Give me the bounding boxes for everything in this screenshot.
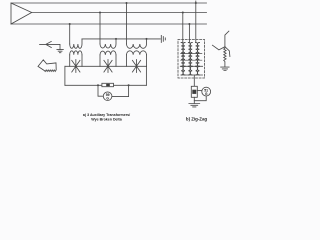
svg-text:a) 3 Auxiliary Transformers/: a) 3 Auxiliary Transformers/ bbox=[83, 113, 130, 117]
node tap T3 bbox=[125, 2, 127, 4]
zig-zag winding col4 upper bbox=[190, 43, 192, 67]
transformer T1 secondary bbox=[70, 51, 82, 55]
node tap Z3 bbox=[195, 2, 197, 4]
wire zig-zag neutral bar bbox=[181, 74, 203, 76]
transformer T3 secondary bbox=[127, 51, 147, 55]
wire relay 51G return bbox=[194, 96, 206, 101]
wire CT to relay 51G bbox=[197, 90, 202, 92]
node relay right bbox=[128, 84, 130, 86]
zig-zag vector symbol left branch bbox=[212, 45, 225, 50]
node X2 crossing bbox=[104, 60, 112, 73]
resistor R (loading) bbox=[102, 83, 114, 86]
zig-zag vector symbol top branch bbox=[225, 31, 229, 47]
fault block arrow (serrated) bbox=[38, 60, 56, 72]
bus envelope (source feeder) bbox=[11, 3, 32, 24]
relay 59G bbox=[103, 92, 112, 101]
zig-zag winding col6 lower bbox=[197, 66, 199, 75]
wire tap Z2 from phase C bbox=[188, 24, 190, 43]
wire tap Z1 from phase B bbox=[182, 13, 184, 43]
wire zig-zag jumper 2 bbox=[181, 59, 202, 61]
wire tap Z3 from phase A bbox=[195, 1, 197, 43]
transformer T2 secondary bbox=[100, 51, 116, 55]
wire neutral drop bbox=[193, 75, 195, 86]
zig-zag winding col4 lower bbox=[190, 66, 192, 75]
wire broken delta bbox=[65, 65, 146, 67]
wire T2 secondary stubs bbox=[100, 55, 116, 67]
coil neutral squiggle bbox=[224, 47, 226, 67]
wire broken delta right drop bbox=[145, 66, 147, 85]
wire relay loop top bbox=[65, 84, 146, 86]
wire CT to ground bbox=[193, 97, 195, 103]
ground (vector symbol) bbox=[221, 67, 229, 70]
node tap Z1 bbox=[182, 11, 184, 13]
transformer T1 primary bbox=[70, 39, 82, 48]
zig-zag transformer enclosure (dashed) bbox=[178, 40, 205, 79]
svg-text:b) Zig-Zag: b) Zig-Zag bbox=[186, 117, 208, 122]
wire tap T3 from phase A bbox=[126, 3, 128, 44]
wire tap T1 from phase C bbox=[69, 24, 71, 44]
node T2 primary to neutral bbox=[115, 38, 117, 40]
zig-zag vector symbol right branch bbox=[225, 47, 230, 57]
zig-zag winding col1 upper bbox=[181, 43, 183, 67]
zig-zag winding col2 lower bbox=[183, 66, 185, 75]
node tap T1 bbox=[69, 23, 71, 25]
node relay left bbox=[97, 84, 99, 86]
zig-zag winding col1 lower bbox=[181, 66, 183, 75]
wire relay 59G left bbox=[98, 85, 103, 96]
arrow fault-current to ground bbox=[40, 41, 60, 49]
wire broken delta left drop bbox=[64, 66, 66, 85]
wire T1 secondary stubs bbox=[70, 55, 82, 67]
wire primary neutral bbox=[82, 38, 160, 40]
wire relay 59G right bbox=[112, 85, 129, 96]
zig-zag winding col6 upper bbox=[197, 43, 199, 67]
transformer T2 primary bbox=[100, 39, 116, 48]
zig-zag winding col5 upper bbox=[196, 43, 198, 67]
bus phase C (bottom line) bbox=[11, 23, 207, 25]
node X3 crossing bbox=[132, 60, 140, 73]
bus phase B (middle line) bbox=[32, 12, 207, 14]
node tap Z2 bbox=[188, 23, 190, 25]
transformer T3 primary bbox=[127, 39, 147, 48]
ground (neutral, right-pointing) bbox=[161, 35, 165, 42]
zig-zag winding col3 lower bbox=[188, 66, 190, 75]
ground (small, under arrow) bbox=[57, 50, 63, 53]
node X1 crossing bbox=[72, 60, 80, 73]
zig-zag winding col2 upper bbox=[183, 43, 185, 67]
node tap T2 bbox=[99, 11, 101, 13]
wire tap T2 from phase B bbox=[99, 13, 101, 45]
relay 51G bbox=[202, 87, 211, 96]
wire zig-zag interconnect bbox=[180, 65, 202, 67]
node T3 primary to neutral bbox=[145, 38, 147, 40]
svg-text:Wye Broken Delta: Wye Broken Delta bbox=[91, 117, 122, 121]
ground (zig-zag neutral) bbox=[189, 104, 200, 107]
wire zig-zag jumper 1 bbox=[181, 53, 202, 55]
zig-zag winding col3 upper bbox=[188, 43, 190, 67]
CT (neutral) bbox=[191, 86, 197, 97]
wire T3 secondary stubs bbox=[127, 55, 147, 67]
bus phase A (top line) bbox=[11, 2, 207, 4]
zig-zag winding col5 lower bbox=[196, 66, 198, 75]
